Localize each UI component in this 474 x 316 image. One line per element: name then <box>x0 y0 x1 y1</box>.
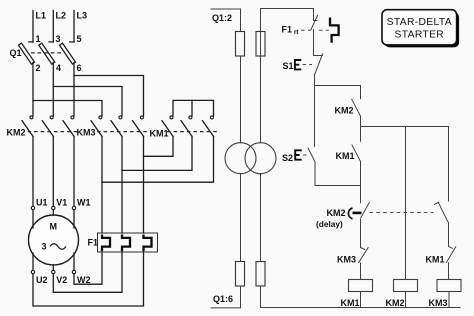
svg-text:1: 1 <box>36 34 41 44</box>
wire L3 phase down to KM2 pole3 <box>73 63 75 116</box>
wire V1 into motor <box>52 210 54 215</box>
wire drop comb to KM1 pole2 <box>191 100 193 115</box>
wire motor to V2 <box>52 265 54 270</box>
wire right branch down <box>448 127 450 201</box>
KM1 main contact pole 3 <box>203 116 214 136</box>
fuse F top-left <box>236 32 245 57</box>
svg-text:KM2: KM2 <box>335 106 354 116</box>
wire KM2 pole1 to U1 <box>32 136 34 206</box>
wire secondary top rail <box>261 9 314 144</box>
wire F1 out2 to V2 <box>53 251 122 292</box>
svg-text:5: 5 <box>77 34 82 44</box>
supply line L3 <box>70 11 87 45</box>
transformer primary circle <box>225 143 256 174</box>
svg-text:F1: F1 <box>282 25 293 35</box>
wire KM3 pole3 down to F1 <box>143 136 145 233</box>
node Q1:6 <box>213 294 233 304</box>
svg-text:S2: S2 <box>282 153 293 163</box>
svg-text:KM3: KM3 <box>337 255 356 265</box>
fuse F bottom-right <box>256 262 265 287</box>
KM2 main contact pole 2 <box>42 116 53 136</box>
svg-text:6: 6 <box>77 63 82 73</box>
wire F1 to S1 <box>313 30 315 56</box>
wire secondary bottom <box>260 174 262 262</box>
KM1 main contact pole 1 <box>162 116 173 136</box>
svg-text:KM2: KM2 <box>386 298 405 308</box>
node Q1:2 <box>212 13 232 23</box>
svg-text:F1: F1 <box>88 238 99 248</box>
svg-text:3: 3 <box>56 34 61 44</box>
svg-text:KM3: KM3 <box>429 298 448 308</box>
contactor KM1 label <box>150 129 169 139</box>
heater element pole3 <box>144 235 152 252</box>
KM1 mechanical linkage (dashed) <box>167 131 218 133</box>
wire KM2 pole3 to W1 <box>73 136 75 206</box>
wire F1 out3 to U2 <box>33 251 144 306</box>
wire motor to U2 <box>32 253 34 270</box>
contactor KM2 label <box>7 128 26 138</box>
wire to Q1:6 <box>211 286 241 308</box>
star-bridge comb feeding KM1 poles <box>173 100 214 115</box>
wire W1 into motor <box>73 210 75 228</box>
svg-text:L3: L3 <box>77 11 88 21</box>
svg-text:M: M <box>50 222 58 232</box>
svg-text:KM1: KM1 <box>426 255 445 265</box>
wire node A to KM2 aux branch <box>315 85 361 87</box>
title box STAR-DELTA STARTER <box>382 10 459 48</box>
timed contact KM2 (delay) <box>316 186 434 248</box>
svg-text:KM2: KM2 <box>327 208 346 218</box>
svg-text:KM1: KM1 <box>150 129 169 139</box>
start button S2 (NO) <box>282 148 315 186</box>
contactor KM3 label <box>77 128 96 138</box>
KM2 mechanical linkage (dashed) <box>28 131 79 133</box>
wire KM3 pole1 down to F1 <box>101 136 103 233</box>
auxiliary contact KM2 (hold-in) <box>335 86 361 142</box>
stop button S1 (NC) <box>283 54 323 74</box>
motor terminal U1 <box>31 198 47 210</box>
thermal trip symbol <box>330 18 339 43</box>
timed contact (NO, delta) <box>434 202 448 246</box>
wire S2 bottom to KM1 branch <box>315 185 361 187</box>
fuse F top-right <box>256 32 265 57</box>
thermal contact F1 (NC) <box>282 15 339 43</box>
wire fuse to transformer <box>240 56 242 143</box>
KM2 main contact pole 1 <box>22 116 33 136</box>
wire branch L3 to KM3 pole3 <box>74 76 144 116</box>
wire branch L2 to KM3 pole2 <box>53 87 122 116</box>
wire S1 to node A <box>314 74 316 146</box>
wire motor to W2 <box>73 253 75 270</box>
svg-text:STARTER: STARTER <box>395 30 445 41</box>
coil KM2 <box>386 280 418 309</box>
svg-text:W1: W1 <box>77 198 91 208</box>
svg-text:V1: V1 <box>56 198 67 208</box>
svg-text:KM1: KM1 <box>341 298 360 308</box>
svg-text:KM1: KM1 <box>336 151 355 161</box>
svg-text:V2: V2 <box>56 275 67 285</box>
svg-text:KM3: KM3 <box>77 128 96 138</box>
KM3 main contact pole 2 <box>111 116 122 136</box>
auxiliary contact KM1 (interlock right) <box>426 246 456 279</box>
wire control primary rail top <box>211 9 241 32</box>
wire KM1 pole2 to node x122 <box>122 136 192 170</box>
wire branch L1 to KM3 pole1 <box>33 101 102 116</box>
KM3 mechanical linkage (dashed) <box>97 131 148 133</box>
wire KM2 pole2 to V1 <box>52 136 54 206</box>
wire KM1 pole3 to node x102 <box>102 136 214 182</box>
motor terminal W1 <box>72 198 90 210</box>
svg-text:U2: U2 <box>36 275 48 285</box>
KM2 main contact pole 3 <box>63 116 74 136</box>
svg-text:3: 3 <box>42 242 47 252</box>
svg-text:KM2: KM2 <box>7 128 26 138</box>
svg-text:(delay): (delay) <box>316 219 343 229</box>
wire KM1 pole1 to node x143.5 <box>144 136 174 156</box>
svg-text:Q1: Q1 <box>10 48 22 58</box>
KM3 main contact pole 3 <box>133 116 144 136</box>
KM3 main contact pole 1 <box>91 116 102 136</box>
wire branch node to coils rail <box>361 126 449 128</box>
svg-text:S1: S1 <box>283 61 294 71</box>
heater element pole2 <box>122 235 130 252</box>
auxiliary contact KM1 <box>336 145 361 186</box>
svg-text:Q1:6: Q1:6 <box>213 294 233 304</box>
svg-text:2: 2 <box>36 63 41 73</box>
wire secondary to bottom rail <box>261 286 461 308</box>
overload relay F1 <box>88 233 158 252</box>
wire KM3 pole2 down to F1 <box>121 136 123 233</box>
svg-text:Q1:2: Q1:2 <box>212 13 232 23</box>
svg-text:4: 4 <box>56 63 61 73</box>
svg-text:STAR-DELTA: STAR-DELTA <box>387 17 452 28</box>
motor terminal U2 <box>31 270 47 285</box>
wire L2 phase down to KM2 pole2 <box>52 63 54 116</box>
svg-text:L2: L2 <box>56 11 67 21</box>
svg-text:W2: W2 <box>77 275 91 285</box>
coil KM1 <box>341 280 373 309</box>
svg-text:U1: U1 <box>36 198 48 208</box>
wire L1 phase down to KM2 pole1 <box>32 63 34 116</box>
motor terminal V1 <box>52 198 68 210</box>
wire F1 out1 to W2 <box>74 251 102 284</box>
KM1 main contact pole 2 <box>181 116 192 136</box>
fuse F bottom-left <box>236 262 245 287</box>
disconnect switch Q1 <box>10 43 82 73</box>
motor terminal V2 <box>52 270 68 285</box>
heater element pole1 <box>102 235 110 252</box>
coil KM3 <box>429 280 462 309</box>
supply line L2 <box>49 11 66 45</box>
supply line L1 <box>29 11 46 45</box>
motor M 3~ <box>29 215 79 265</box>
motor terminal W2 <box>72 270 90 285</box>
svg-text:rt: rt <box>294 30 298 36</box>
transformer secondary circle <box>245 143 276 174</box>
wire transformer to bottom fuse left <box>240 174 242 262</box>
wire to KM2 coil <box>405 127 407 280</box>
wire U1 into motor <box>32 210 34 228</box>
auxiliary contact KM3 (interlock) <box>337 248 368 280</box>
svg-text:L1: L1 <box>36 11 47 21</box>
